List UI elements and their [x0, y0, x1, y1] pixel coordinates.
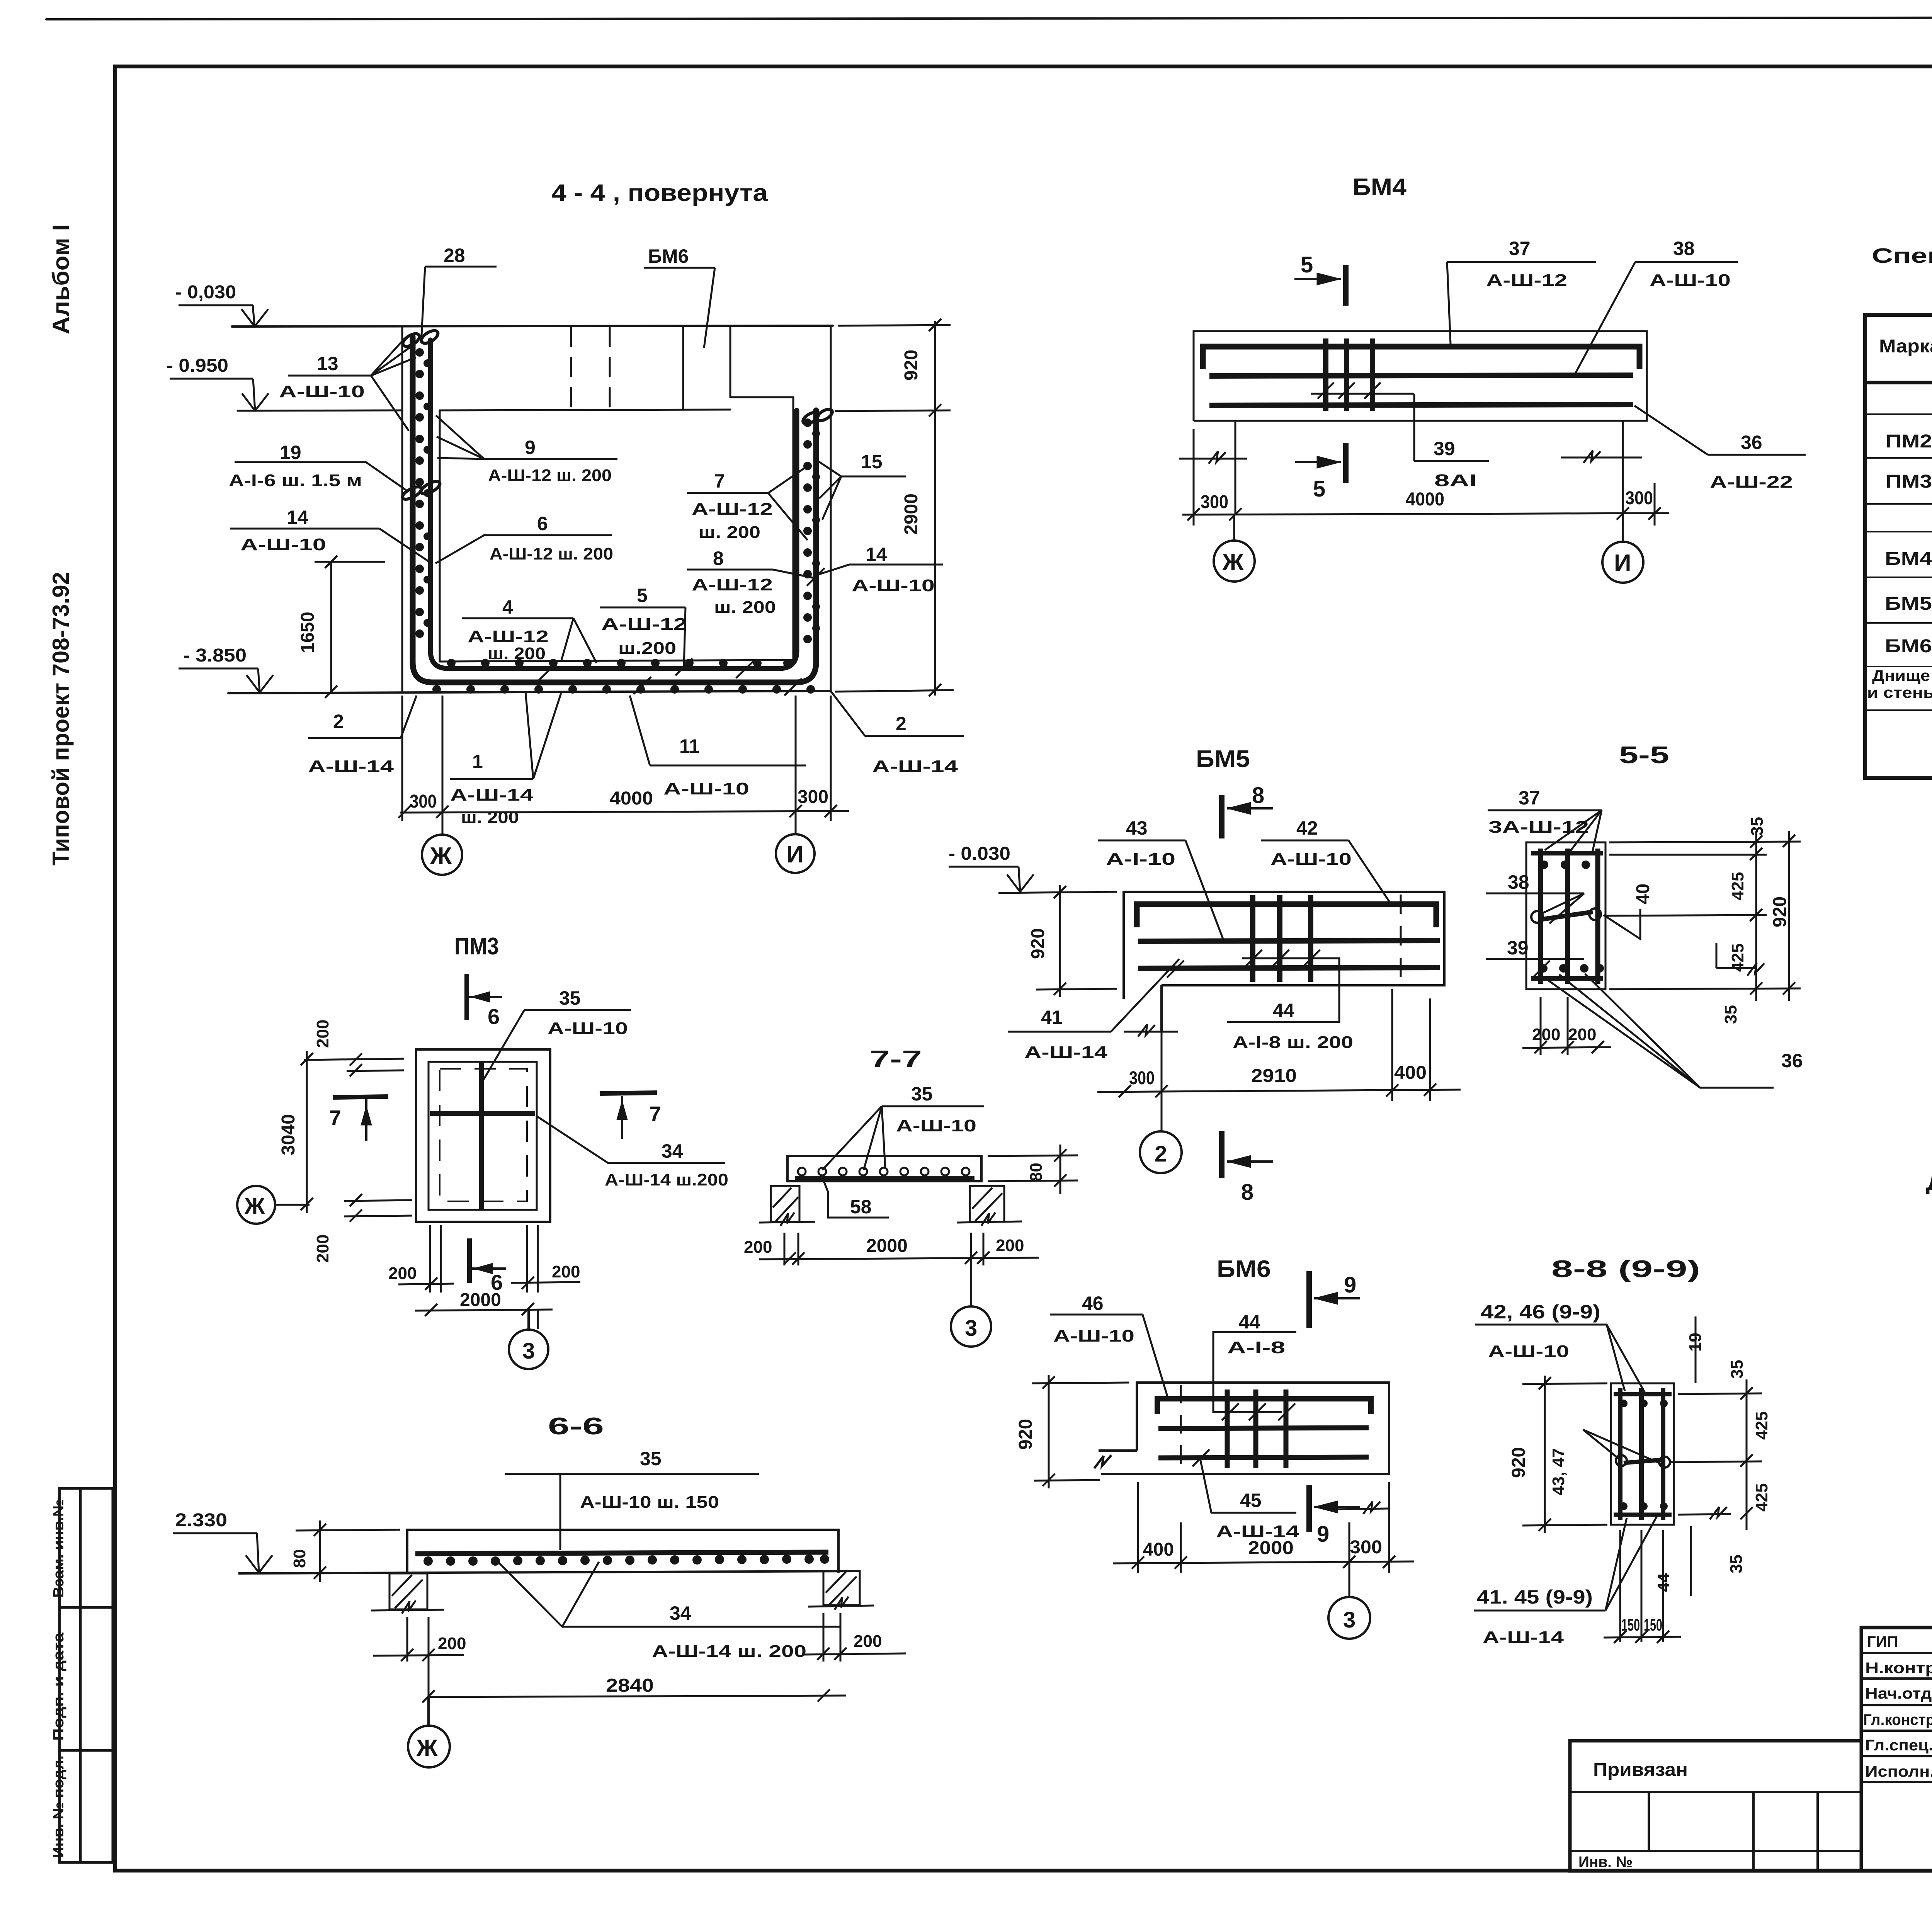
hidden beam БМ5 dashed edge 1: [570, 328, 572, 410]
svg-text:45: 45: [1240, 1490, 1262, 1511]
section mark 7 (right): [600, 1093, 657, 1139]
section mark 5 (top): [1294, 265, 1346, 306]
axis Ж circle (ПМ3): [237, 1186, 275, 1224]
svg-text:11: 11: [679, 735, 700, 757]
svg-text:4 - 4 , повернута: 4 - 4 , повернута: [551, 180, 768, 206]
svg-text:4000: 4000: [610, 788, 653, 809]
БМ6 beam outline with step: [1094, 1383, 1389, 1474]
svg-text:Гл.спец.: Гл.спец.: [1865, 1737, 1932, 1754]
dimension 1650 (left): [315, 556, 385, 698]
svg-text:35: 35: [1727, 1554, 1746, 1573]
slab underside line inner segment: [440, 410, 730, 410]
svg-text:2910: 2910: [1251, 1066, 1297, 1086]
svg-text:35: 35: [1748, 817, 1767, 836]
svg-text:А-Ш-10 ш. 150: А-Ш-10 ш. 150: [580, 1493, 719, 1512]
svg-text:А-Ш-12 ш. 200: А-Ш-12 ш. 200: [488, 466, 612, 485]
svg-text:35: 35: [911, 1083, 933, 1105]
svg-text:- 0,030: - 0,030: [175, 282, 236, 303]
svg-text:ш.200: ш.200: [618, 639, 676, 658]
svg-text:5: 5: [1313, 476, 1325, 502]
left wall rebar dots: [415, 348, 431, 638]
8-8 top bar: [1614, 1392, 1672, 1396]
svg-text:И: И: [1614, 550, 1631, 577]
svg-text:А-Ш-10: А-Ш-10: [1650, 271, 1731, 290]
svg-text:15: 15: [861, 451, 883, 473]
svg-text:3: 3: [522, 1338, 535, 1364]
БМ4 beam outline: [1194, 331, 1647, 421]
svg-text:300: 300: [1350, 1537, 1382, 1558]
6-6 dims 200 / 2840 / 200: [373, 1613, 906, 1706]
svg-text:А-Ш-10: А-Ш-10: [279, 382, 365, 401]
svg-text:1650: 1650: [298, 612, 318, 653]
svg-text:Ж: Ж: [416, 1735, 438, 1761]
svg-text:2: 2: [896, 713, 906, 735]
bottom dims 200/2000/200: [398, 1225, 580, 1329]
svg-text:БМ6: БМ6: [1217, 1256, 1271, 1282]
svg-text:А-Ш-12: А-Ш-12: [468, 627, 549, 646]
5-5 bottom bar: [1531, 976, 1603, 981]
svg-text:А-Ш-14 ш. 200: А-Ш-14 ш. 200: [652, 1642, 806, 1661]
svg-text:А-Ш-12 ш. 200: А-Ш-12 ш. 200: [490, 544, 613, 563]
stirrups 44: [1253, 895, 1311, 982]
7-7 bottom rebar bar: [795, 1176, 975, 1180]
left wall outer face: [401, 327, 403, 692]
bottom rebar 41: [1138, 968, 1440, 968]
dashed bar in beam: [1400, 895, 1402, 983]
svg-text:Спецификация к схемам распол: Спецификация к схемам расположения натяж…: [1872, 244, 1932, 267]
8-8 right dims 35/425/425/35: [1671, 1379, 1762, 1530]
svg-text:Н.контр: Н.контр: [1865, 1660, 1932, 1677]
ground line (2.330 level): [238, 1571, 860, 1573]
axis 3 circle (БМ6): [1328, 1597, 1370, 1639]
break mark right of section 9: [1335, 1502, 1389, 1514]
svg-text:8-8 (9-9): 8-8 (9-9): [1551, 1256, 1700, 1282]
svg-text:БМ5: БМ5: [1885, 594, 1932, 614]
svg-text:А-І-8: А-І-8: [1227, 1338, 1285, 1357]
svg-text:8: 8: [1241, 1180, 1253, 1205]
dim 44 (rotated): [1690, 1526, 1692, 1596]
svg-text:5: 5: [1301, 252, 1313, 277]
base slab rebar dots lower row: [432, 685, 815, 694]
specification table grid: [1865, 315, 1932, 778]
section mark 9 (top): [1309, 1271, 1360, 1328]
bottom rebar 45: [1158, 1457, 1369, 1458]
svg-text:425: 425: [1752, 1483, 1771, 1512]
svg-text:Ж: Ж: [1222, 549, 1244, 576]
bottom rebar bar 36: [1209, 405, 1633, 405]
БМ5 beam outline: [1124, 892, 1444, 1032]
svg-text:150: 150: [1621, 1616, 1640, 1634]
wall rebar bar inner (pos.14): [430, 340, 797, 668]
svg-text:А-І-8 ш. 200: А-І-8 ш. 200: [1233, 1033, 1353, 1052]
svg-text:Привязан: Привязан: [1593, 1760, 1688, 1780]
right wall outer face: [830, 326, 832, 692]
8-8 bottom dims 150/150: [1604, 1530, 1681, 1643]
top scan edge line: [46, 17, 1932, 19]
svg-text:БМ6: БМ6: [648, 245, 689, 267]
svg-text:А-Ш-10: А-Ш-10: [1270, 850, 1352, 869]
svg-text:7-7: 7-7: [870, 1046, 922, 1073]
slab underside line (-0.950 level) left segment: [238, 410, 402, 411]
dim 80 (6-6): [296, 1520, 400, 1582]
svg-text:3А-Ш-12: 3А-Ш-12: [1488, 818, 1589, 837]
svg-text:А-І-6 ш. 1.5 м: А-І-6 ш. 1.5 м: [229, 471, 362, 490]
Привязан box: [1570, 1741, 1861, 1871]
svg-text:80: 80: [1027, 1163, 1046, 1182]
axis 2 circle (БМ5): [1140, 1131, 1182, 1173]
svg-text:6: 6: [537, 513, 548, 534]
7-7 rebar dots: [798, 1168, 969, 1175]
left support (hatched): [759, 1186, 815, 1226]
svg-text:- 3.850: - 3.850: [183, 645, 247, 666]
svg-text:200: 200: [996, 1236, 1024, 1255]
6-6 bottom rebar bar 34: [415, 1552, 828, 1554]
section mark 6 (bottom): [469, 1238, 506, 1283]
top rebar 42 with hooks: [1137, 904, 1436, 927]
5-5 bottom bar dots: [1539, 964, 1604, 973]
dimension 920 (right): [835, 319, 954, 696]
svg-text:ш. 200: ш. 200: [714, 598, 776, 617]
svg-text:ПМ3: ПМ3: [1886, 471, 1932, 492]
stirrup cut slashes: [1318, 383, 1381, 399]
svg-text:150: 150: [1644, 1616, 1662, 1634]
wall rebar bar outer (pos.13): [413, 337, 816, 682]
svg-text:19: 19: [1686, 1333, 1705, 1352]
svg-text:920: 920: [1028, 928, 1048, 959]
svg-text:А-Ш-14: А-Ш-14: [1483, 1628, 1564, 1647]
5-5 middle tie circles + diagonal (pos.40): [1531, 908, 1601, 923]
svg-text:2: 2: [1155, 1141, 1167, 1167]
dim 920 (БМ6 left): [1032, 1375, 1129, 1488]
6-6 rebar dots: [423, 1554, 829, 1566]
right wall rebar dots: [803, 418, 820, 643]
left wall inner face: [439, 410, 441, 662]
svg-text:44: 44: [1239, 1311, 1260, 1333]
signature table frame: [1861, 1628, 1932, 1871]
svg-text:400: 400: [1394, 1063, 1427, 1083]
svg-text:38: 38: [1673, 238, 1695, 259]
8-8 column outline: [1611, 1383, 1674, 1525]
svg-text:9: 9: [1344, 1272, 1356, 1298]
top rebar bar 37 with end hooks: [1203, 347, 1639, 369]
svg-text:8: 8: [713, 548, 724, 569]
svg-text:920: 920: [1509, 1447, 1529, 1478]
svg-text:39: 39: [1434, 438, 1455, 459]
svg-text:ш. 200: ш. 200: [488, 644, 546, 663]
hidden beam БМ5 dashed edge 2: [609, 328, 611, 410]
svg-text:920: 920: [901, 350, 922, 381]
svg-text:А-Ш-10: А-Ш-10: [1053, 1327, 1134, 1345]
svg-text:Данный лист смотреть сов: Данный лист смотреть совместно с листом …: [1926, 1172, 1932, 1195]
svg-text:80: 80: [290, 1549, 309, 1568]
svg-text:8: 8: [1252, 783, 1264, 808]
svg-text:7: 7: [649, 1102, 661, 1126]
svg-text:и стены: и стены: [1867, 684, 1932, 701]
svg-text:200: 200: [744, 1238, 772, 1257]
svg-text:Ж: Ж: [430, 843, 452, 869]
dim 920 (БМ5 left): [998, 885, 1117, 997]
svg-text:36: 36: [1781, 1050, 1803, 1071]
svg-text:300: 300: [1625, 488, 1653, 509]
5-5 bottom dims 200/200: [1522, 997, 1611, 1055]
svg-text:200: 200: [313, 1020, 332, 1048]
БМ4 dimension line 300/4000/300: [1182, 429, 1669, 526]
svg-text:Типовой проект 708-73.92: Типовой проект 708-73.92: [48, 572, 74, 866]
svg-text:3: 3: [965, 1316, 977, 1341]
svg-text:4000: 4000: [1406, 489, 1444, 510]
5-5 column outline: [1526, 842, 1605, 989]
middle rebar: [1158, 1428, 1369, 1429]
base slab rebar dots upper row: [447, 659, 792, 667]
svg-text:35: 35: [1728, 1360, 1747, 1379]
svg-text:А-Ш-12: А-Ш-12: [692, 500, 773, 519]
svg-text:А-Ш-10: А-Ш-10: [548, 1019, 628, 1038]
svg-text:41. 45 (9-9): 41. 45 (9-9): [1477, 1586, 1593, 1608]
svg-text:ПМ3: ПМ3: [454, 933, 499, 960]
svg-text:3: 3: [1343, 1607, 1355, 1633]
svg-text:300: 300: [1201, 492, 1228, 512]
svg-text:БМ4: БМ4: [1352, 174, 1407, 201]
svg-text:А-Ш-14: А-Ш-14: [1024, 1043, 1108, 1062]
svg-text:9: 9: [1317, 1522, 1329, 1547]
section mark 6 (top): [467, 974, 502, 1020]
svg-text:ПМ2: ПМ2: [1886, 431, 1932, 452]
section mark 7 (left): [333, 1097, 388, 1141]
svg-text:14: 14: [866, 544, 887, 565]
svg-text:200: 200: [1532, 1025, 1560, 1044]
7-7 slab outline: [787, 1156, 981, 1181]
svg-text:19: 19: [280, 442, 301, 463]
svg-text:36: 36: [1741, 432, 1762, 453]
5-5 vertical bars: [1541, 849, 1598, 984]
svg-text:4: 4: [502, 596, 513, 618]
svg-text:- 0.030: - 0.030: [949, 844, 1010, 864]
svg-text:425: 425: [1728, 944, 1747, 972]
top hook loops of right wall bars: [801, 410, 820, 426]
svg-text:ш. 200: ш. 200: [699, 523, 760, 542]
section mark 8 (bottom): [1222, 1131, 1273, 1178]
svg-text:БМ5: БМ5: [1196, 746, 1250, 772]
svg-text:Инв. № подл.: Инв. № подл.: [51, 1755, 67, 1858]
svg-text:35: 35: [559, 987, 581, 1009]
section mark 9 (bottom): [1309, 1485, 1360, 1532]
svg-text:9: 9: [525, 437, 536, 458]
svg-text:39: 39: [1507, 937, 1529, 959]
ПМ3 dashed rebar zone: [440, 1069, 527, 1201]
svg-text:А-Ш-10: А-Ш-10: [896, 1116, 976, 1135]
axis 3 circle (ПМ3): [509, 1310, 548, 1369]
base slab top face: [440, 660, 793, 662]
svg-text:13: 13: [317, 353, 338, 374]
rebar 34 (horizontal bar): [430, 1111, 535, 1116]
svg-text:А-Ш-10: А-Ш-10: [852, 576, 935, 595]
svg-text:5: 5: [637, 585, 648, 606]
svg-text:2000: 2000: [866, 1236, 908, 1256]
base slab bottom face (-3.850 level): [228, 691, 831, 693]
svg-text:И: И: [786, 841, 804, 868]
right support (hatched): [957, 1186, 1022, 1226]
right support (hatched): [808, 1571, 874, 1610]
svg-text:42, 46 (9-9): 42, 46 (9-9): [1481, 1301, 1600, 1323]
bar cut slashes on base bars: [539, 661, 802, 696]
svg-text:37: 37: [1519, 787, 1540, 809]
svg-text:200: 200: [854, 1632, 882, 1651]
middle rebar bar 38: [1209, 375, 1633, 376]
stirrups 44: [1227, 1389, 1286, 1468]
svg-text:Исполн.: Исполн.: [1865, 1763, 1932, 1780]
БМ6 bottom dims 400/2000/300: [1113, 1482, 1414, 1597]
БМ6 beam right edge in slab: [730, 327, 731, 397]
svg-text:ш. 200: ш. 200: [461, 808, 519, 827]
svg-text:А-Ш-14 ш.200: А-Ш-14 ш.200: [605, 1170, 728, 1189]
svg-text:200: 200: [438, 1634, 466, 1653]
svg-text:БМ4: БМ4: [1885, 549, 1932, 569]
svg-text:2: 2: [333, 711, 344, 732]
svg-text:Марка: Марка: [1879, 336, 1932, 357]
top hook loops of left wall bars (pos.28): [401, 331, 421, 349]
axis И circle: [776, 834, 815, 873]
ПМ3 slab inner outline: [429, 1062, 537, 1210]
svg-text:2000: 2000: [1248, 1538, 1294, 1558]
svg-text:А-Ш-14: А-Ш-14: [872, 757, 958, 776]
svg-text:8АІ: 8АІ: [1434, 471, 1477, 490]
svg-text:7: 7: [329, 1105, 341, 1130]
mid-wall tie loops (pos.19): [401, 485, 423, 502]
svg-text:А-Ш-14: А-Ш-14: [450, 786, 534, 804]
svg-text:44: 44: [1273, 1000, 1294, 1021]
extension line with breaks under beam: [1179, 421, 1642, 543]
svg-text:БМ6: БМ6: [1885, 636, 1932, 656]
svg-text:2000: 2000: [460, 1290, 501, 1310]
8-8 bottom dots: [1620, 1502, 1668, 1510]
svg-text:35: 35: [640, 1448, 662, 1469]
svg-text:40: 40: [1633, 884, 1653, 904]
БМ5 bottom dims 300/2910/400: [1097, 989, 1461, 1131]
left dims 200/3040/200: [276, 1051, 412, 1222]
svg-text:- 0.950: - 0.950: [167, 355, 228, 376]
8-8 middle tie circles + diagonal: [1616, 1455, 1670, 1468]
svg-text:43: 43: [1126, 817, 1148, 839]
axis Ж circle: [1214, 541, 1255, 582]
svg-text:425: 425: [1752, 1412, 1771, 1440]
svg-text:6-6: 6-6: [548, 1413, 604, 1440]
svg-text:ГИП: ГИП: [1867, 1633, 1898, 1650]
svg-text:2.330: 2.330: [175, 1510, 227, 1531]
top surface line (-0.030 level): [232, 326, 833, 327]
svg-text:А-Ш-14: А-Ш-14: [308, 757, 394, 776]
svg-text:Альбом I: Альбом I: [48, 224, 74, 334]
6-6 slab outline: [407, 1530, 838, 1573]
svg-text:А-Ш-22: А-Ш-22: [1710, 473, 1793, 492]
left attribute table: [60, 1488, 113, 1862]
svg-text:200: 200: [388, 1264, 417, 1283]
svg-text:920: 920: [1770, 896, 1790, 927]
svg-text:425: 425: [1728, 872, 1747, 900]
axis Ж circle: [422, 835, 462, 875]
svg-text:14: 14: [287, 507, 308, 528]
dim 80 (right of 7-7): [988, 1145, 1078, 1194]
svg-text:Подп. и дата: Подп. и дата: [51, 1632, 67, 1741]
svg-text:34: 34: [670, 1602, 691, 1624]
left support (hatched): [371, 1573, 444, 1614]
svg-text:35: 35: [1721, 1005, 1740, 1024]
svg-text:А-Ш-12: А-Ш-12: [601, 615, 687, 634]
top rebar 46 with hooks: [1157, 1399, 1371, 1414]
svg-text:Ж: Ж: [244, 1194, 265, 1219]
svg-text:41: 41: [1041, 1007, 1063, 1028]
svg-text:А-Ш-10: А-Ш-10: [240, 535, 326, 554]
axis Ж circle (6-6): [408, 1697, 450, 1767]
section mark 5 (bottom): [1295, 443, 1346, 483]
5-5 right dims 35/425/425/35 + 920: [1604, 831, 1801, 1001]
svg-text:43, 47: 43, 47: [1549, 1448, 1568, 1495]
ПМ3 slab outer outline: [416, 1049, 550, 1222]
section mark 8 (top): [1222, 795, 1273, 838]
svg-text:Нач.отд.: Нач.отд.: [1865, 1685, 1932, 1702]
svg-text:300: 300: [410, 791, 437, 812]
svg-text:3040: 3040: [278, 1114, 299, 1155]
svg-text:37: 37: [1509, 238, 1531, 259]
right wall top step line: [730, 396, 793, 398]
svg-text:5-5: 5-5: [1619, 742, 1669, 769]
svg-text:42: 42: [1296, 817, 1318, 839]
svg-text:46: 46: [1082, 1293, 1104, 1314]
svg-text:А-Ш-10: А-Ш-10: [1488, 1342, 1569, 1361]
8-8 top dots: [1620, 1400, 1668, 1407]
svg-text:200: 200: [1568, 1025, 1596, 1044]
dim 19 (rotated): [1695, 1316, 1697, 1383]
right wall inner face: [793, 397, 794, 662]
svg-text:Днище: Днище: [1872, 667, 1930, 684]
svg-text:А-Ш-10: А-Ш-10: [663, 779, 749, 798]
svg-text:2900: 2900: [901, 493, 922, 535]
axis И circle: [1602, 542, 1643, 583]
8-8 vertical bars: [1620, 1388, 1663, 1520]
svg-text:400: 400: [1143, 1539, 1174, 1560]
5-5 top bar dots: [1540, 861, 1590, 869]
5-5 top bar: [1531, 851, 1603, 855]
svg-text:38: 38: [1508, 871, 1529, 893]
svg-text:200: 200: [313, 1235, 332, 1263]
svg-text:300: 300: [1129, 1068, 1155, 1088]
bottom dimension line 300/4000/300: [398, 696, 849, 835]
svg-text:1: 1: [472, 751, 483, 772]
rebar 35 (vertical bar): [479, 1062, 484, 1210]
7-7 bottom dimension 200/2000/200: [759, 1233, 1039, 1306]
svg-text:28: 28: [444, 245, 465, 266]
dim 920 (8-8 left): [1522, 1376, 1607, 1533]
axis 3 circle (7-7): [951, 1259, 991, 1347]
svg-text:А-Ш-12: А-Ш-12: [1486, 271, 1567, 290]
svg-text:920: 920: [1015, 1419, 1036, 1450]
svg-text:7: 7: [714, 470, 725, 492]
svg-text:Инв. №: Инв. №: [1578, 1854, 1633, 1871]
БМ6 beam left edge in slab: [682, 327, 684, 410]
svg-text:58: 58: [850, 1196, 872, 1218]
svg-text:6: 6: [488, 1004, 500, 1029]
stirrups 39: [1326, 338, 1372, 411]
svg-text:300: 300: [798, 787, 828, 807]
svg-text:Гл.констр.: Гл.констр.: [1863, 1711, 1932, 1728]
middle rebar 43: [1138, 940, 1440, 941]
dashed bar (БМ6): [1180, 1385, 1182, 1471]
svg-text:34: 34: [662, 1140, 683, 1162]
svg-text:А-І-10: А-І-10: [1106, 850, 1175, 869]
8-8 bottom bar: [1614, 1513, 1672, 1517]
svg-text:200: 200: [552, 1262, 580, 1281]
svg-text:Взам. инв.№: Взам. инв.№: [51, 1499, 67, 1598]
svg-text:2840: 2840: [606, 1675, 654, 1696]
